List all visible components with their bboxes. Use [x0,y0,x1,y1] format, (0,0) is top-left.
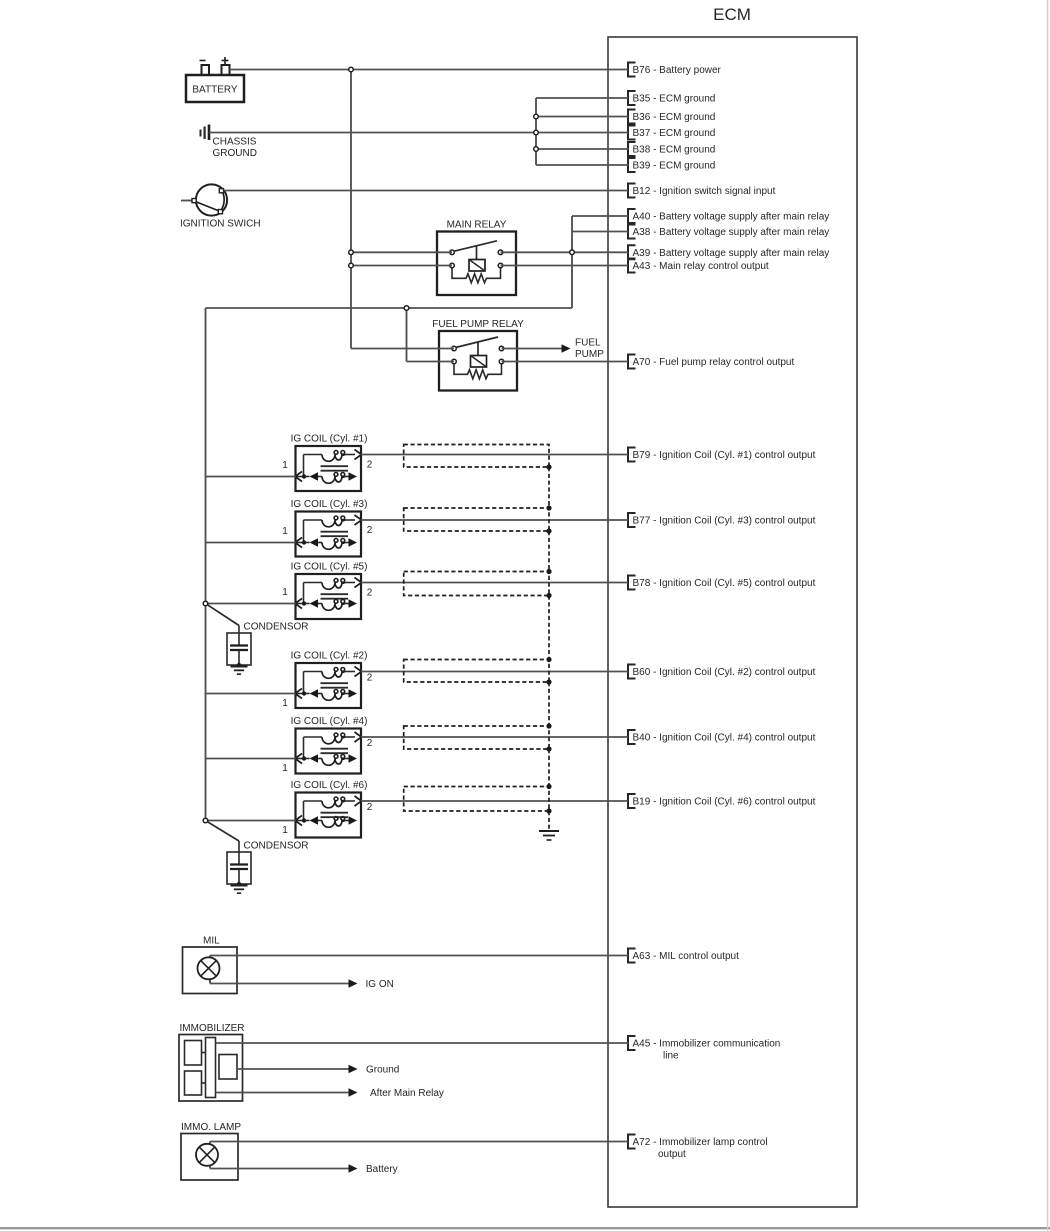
svg-text:B79 - Ignition Coil (Cyl. #1): B79 - Ignition Coil (Cyl. #1) control ou… [633,450,816,461]
svg-text:A40 - Battery voltage supply a: A40 - Battery voltage supply after main … [633,212,830,223]
svg-text:A63 - MIL control output: A63 - MIL control output [633,951,740,962]
svg-text:Battery: Battery [366,1164,398,1175]
svg-text:IG COIL (Cyl. #5): IG COIL (Cyl. #5) [291,562,368,573]
svg-text:2: 2 [367,588,373,599]
svg-text:B78 - Ignition Coil (Cyl. #5): B78 - Ignition Coil (Cyl. #5) control ou… [633,578,816,589]
svg-text:2: 2 [367,460,373,471]
svg-text:MIL: MIL [203,936,220,947]
svg-text:B38 - ECM ground: B38 - ECM ground [633,145,716,156]
svg-text:A45 - Immobilizer communicatio: A45 - Immobilizer communication [633,1039,781,1050]
svg-text:IG COIL (Cyl. #2): IG COIL (Cyl. #2) [291,651,368,662]
svg-text:A72 - Immobilizer lamp control: A72 - Immobilizer lamp control [633,1137,768,1148]
svg-text:B19 - Ignition Coil (Cyl. #6): B19 - Ignition Coil (Cyl. #6) control ou… [633,797,816,808]
svg-text:1: 1 [282,698,288,709]
svg-text:line: line [663,1051,679,1062]
svg-text:BATTERY: BATTERY [192,85,238,96]
svg-text:1: 1 [282,763,288,774]
svg-text:1: 1 [282,460,288,471]
svg-text:FUEL: FUEL [575,338,601,349]
svg-text:IMMO. LAMP: IMMO. LAMP [181,1122,241,1133]
svg-text:GROUND: GROUND [213,148,257,159]
svg-text:2: 2 [367,673,373,684]
svg-text:IG COIL (Cyl. #3): IG COIL (Cyl. #3) [291,499,368,510]
svg-text:2: 2 [367,738,373,749]
svg-text:Ground: Ground [366,1065,399,1076]
svg-text:1: 1 [282,526,288,537]
svg-text:MAIN RELAY: MAIN RELAY [447,220,507,231]
svg-text:B37 - ECM ground: B37 - ECM ground [633,128,716,139]
svg-text:IG COIL (Cyl. #4): IG COIL (Cyl. #4) [291,716,368,727]
svg-text:FUEL PUMP RELAY: FUEL PUMP RELAY [432,319,524,330]
svg-text:After Main Relay: After Main Relay [370,1088,444,1099]
svg-text:B12 - Ignition switch signal i: B12 - Ignition switch signal input [633,186,776,197]
svg-text:2: 2 [367,802,373,813]
svg-text:1: 1 [282,825,288,836]
svg-text:IG COIL (Cyl. #6): IG COIL (Cyl. #6) [291,780,368,791]
svg-text:A39 - Battery voltage supply a: A39 - Battery voltage supply after main … [633,248,830,259]
svg-text:PUMP: PUMP [575,349,604,360]
svg-text:B35 - ECM ground: B35 - ECM ground [633,94,716,105]
svg-text:CONDENSOR: CONDENSOR [244,841,309,852]
svg-text:A43 - Main relay control outpu: A43 - Main relay control output [633,261,769,272]
svg-text:B36 - ECM ground: B36 - ECM ground [633,112,716,123]
svg-text:B77 - Ignition Coil (Cyl. #3): B77 - Ignition Coil (Cyl. #3) control ou… [633,516,816,527]
svg-text:output: output [658,1149,686,1160]
svg-text:B76 - Battery power: B76 - Battery power [633,65,722,76]
svg-text:IGNITION SWICH: IGNITION SWICH [180,219,261,230]
svg-text:IMMOBILIZER: IMMOBILIZER [180,1023,245,1034]
svg-text:B39 - ECM ground: B39 - ECM ground [633,161,716,172]
svg-text:A70 - Fuel pump relay control: A70 - Fuel pump relay control output [633,357,795,368]
svg-text:1: 1 [282,587,288,598]
svg-text:ECM: ECM [713,5,751,24]
svg-text:A38 - Battery voltage supply a: A38 - Battery voltage supply after main … [633,227,830,238]
svg-text:B40 - Ignition Coil (Cyl. #4): B40 - Ignition Coil (Cyl. #4) control ou… [633,733,816,744]
svg-text:2: 2 [367,525,373,536]
svg-text:CONDENSOR: CONDENSOR [244,621,309,632]
svg-text:IG COIL (Cyl. #1): IG COIL (Cyl. #1) [291,434,368,445]
svg-text:IG ON: IG ON [366,979,394,990]
svg-text:CHASSIS: CHASSIS [213,137,257,148]
svg-text:B60 - Ignition Coil (Cyl. #2): B60 - Ignition Coil (Cyl. #2) control ou… [633,667,816,678]
